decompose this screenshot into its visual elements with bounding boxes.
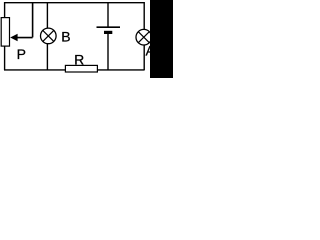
- svg-text:P: P: [17, 46, 26, 62]
- svg-text:B: B: [61, 29, 70, 45]
- svg-text:R: R: [74, 52, 84, 68]
